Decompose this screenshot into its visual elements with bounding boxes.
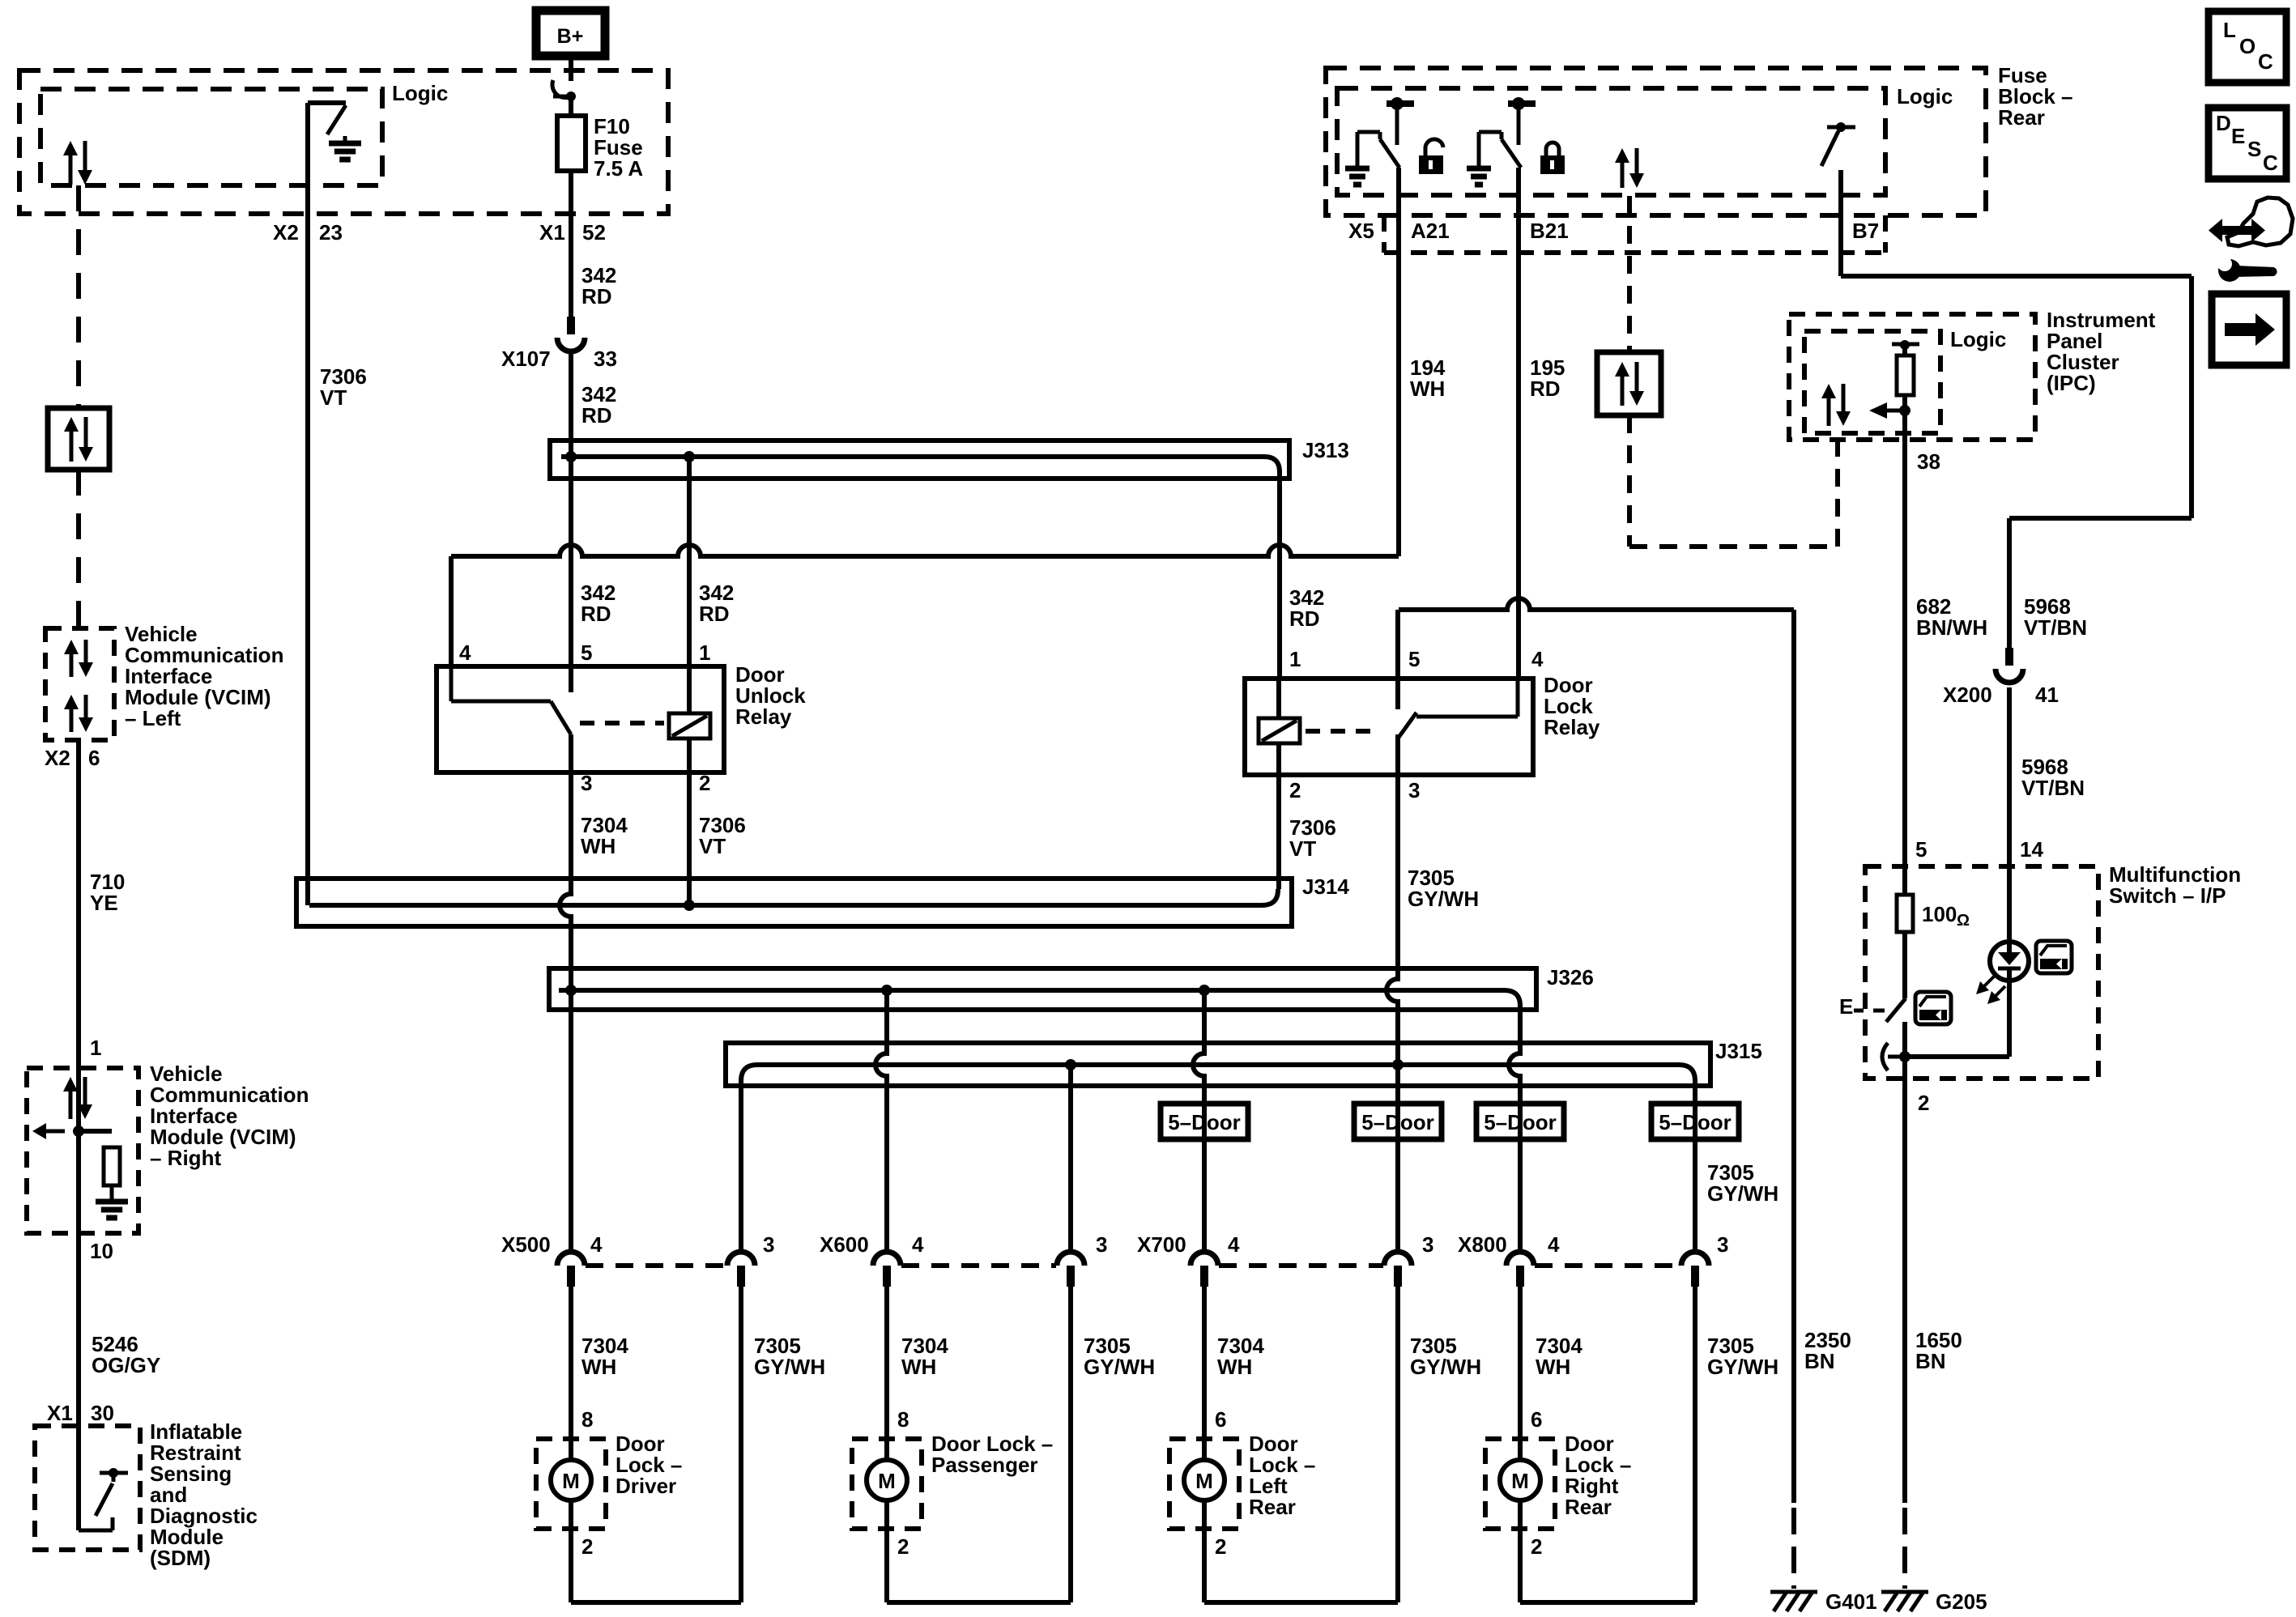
svg-text:VT/BN: VT/BN <box>2021 776 2085 800</box>
svg-text:X1: X1 <box>539 220 565 245</box>
svg-text:5–Door: 5–Door <box>1659 1110 1732 1134</box>
svg-text:Relay: Relay <box>735 704 792 729</box>
svg-text:2: 2 <box>699 771 710 795</box>
svg-text:J313: J313 <box>1302 438 1349 462</box>
svg-text:J314: J314 <box>1302 874 1349 899</box>
svg-text:L: L <box>2223 18 2236 42</box>
svg-text:RD: RD <box>581 403 612 428</box>
svg-text:G205: G205 <box>1936 1589 1987 1614</box>
svg-text:4: 4 <box>1228 1232 1240 1257</box>
svg-text:– Left: – Left <box>125 706 181 730</box>
svg-text:3: 3 <box>763 1232 774 1257</box>
svg-text:OG/GY: OG/GY <box>92 1353 160 1377</box>
svg-text:RD: RD <box>699 602 730 626</box>
svg-text:WH: WH <box>581 834 616 858</box>
svg-text:X2: X2 <box>45 746 70 770</box>
svg-text:X500: X500 <box>501 1232 551 1257</box>
svg-text:BN/WH: BN/WH <box>1916 615 1987 640</box>
svg-text:41: 41 <box>2035 683 2059 707</box>
svg-text:5–Door: 5–Door <box>1484 1110 1557 1134</box>
svg-text:GY/WH: GY/WH <box>754 1355 825 1379</box>
svg-text:RD: RD <box>581 602 611 626</box>
svg-text:GY/WH: GY/WH <box>1707 1355 1778 1379</box>
svg-text:VT/BN: VT/BN <box>2024 615 2087 640</box>
svg-text:30: 30 <box>91 1401 114 1425</box>
svg-text:23: 23 <box>319 220 343 245</box>
svg-text:2: 2 <box>1215 1534 1226 1559</box>
svg-text:5–Door: 5–Door <box>1168 1110 1241 1134</box>
svg-text:2: 2 <box>1531 1534 1542 1559</box>
svg-text:VT: VT <box>699 834 726 858</box>
svg-text:B+: B+ <box>557 25 584 48</box>
svg-text:GY/WH: GY/WH <box>1410 1355 1481 1379</box>
svg-text:3: 3 <box>1408 778 1420 802</box>
svg-text:1: 1 <box>699 640 710 665</box>
svg-text:– Right: – Right <box>150 1146 221 1170</box>
svg-text:X107: X107 <box>501 347 551 371</box>
svg-text:D: D <box>2216 111 2231 135</box>
svg-text:Passenger: Passenger <box>931 1453 1038 1477</box>
svg-text:GY/WH: GY/WH <box>1707 1181 1778 1206</box>
svg-text:5–Door: 5–Door <box>1361 1110 1434 1134</box>
svg-text:S: S <box>2247 137 2261 161</box>
svg-text:6: 6 <box>1531 1407 1542 1432</box>
svg-text:Rear: Rear <box>1249 1495 1296 1519</box>
svg-text:X1: X1 <box>47 1401 73 1425</box>
svg-text:6: 6 <box>1215 1407 1226 1432</box>
svg-text:G401: G401 <box>1825 1589 1877 1614</box>
svg-text:Logic: Logic <box>1897 84 1953 109</box>
svg-text:2: 2 <box>897 1534 909 1559</box>
svg-text:E: E <box>2231 124 2245 148</box>
svg-text:B21: B21 <box>1530 219 1569 243</box>
svg-text:J326: J326 <box>1547 965 1594 989</box>
svg-text:10: 10 <box>90 1239 113 1263</box>
svg-text:BN: BN <box>1804 1349 1835 1373</box>
svg-text:WH: WH <box>581 1355 616 1379</box>
svg-text:WH: WH <box>901 1355 936 1379</box>
svg-text:2: 2 <box>1289 778 1301 802</box>
svg-text:4: 4 <box>1548 1232 1560 1257</box>
svg-text:RD: RD <box>1530 377 1561 401</box>
svg-text:Logic: Logic <box>392 81 448 105</box>
svg-text:WH: WH <box>1410 377 1445 401</box>
svg-text:WH: WH <box>1217 1355 1252 1379</box>
svg-text:M: M <box>1195 1469 1213 1493</box>
svg-text:38: 38 <box>1917 449 1940 474</box>
svg-text:Driver: Driver <box>616 1474 676 1498</box>
svg-text:7.5 A: 7.5 A <box>594 156 643 181</box>
svg-text:52: 52 <box>582 220 606 245</box>
svg-text:2: 2 <box>581 1534 593 1559</box>
svg-text:5: 5 <box>1915 837 1927 862</box>
svg-text:GY/WH: GY/WH <box>1408 887 1479 911</box>
svg-text:Logic: Logic <box>1950 327 2006 351</box>
svg-text:4: 4 <box>590 1232 603 1257</box>
svg-text:3: 3 <box>1096 1232 1107 1257</box>
svg-text:(IPC): (IPC) <box>2047 371 2096 395</box>
svg-text:X200: X200 <box>1943 683 1992 707</box>
svg-text:33: 33 <box>594 347 617 371</box>
svg-text:RD: RD <box>581 284 612 309</box>
svg-text:2: 2 <box>1918 1091 1929 1115</box>
svg-text:Switch – I/P: Switch – I/P <box>2109 883 2226 908</box>
svg-text:RD: RD <box>1289 606 1320 631</box>
svg-text:Rear: Rear <box>1998 105 2045 130</box>
svg-text:C: C <box>2258 49 2273 74</box>
svg-text:A21: A21 <box>1411 219 1450 243</box>
svg-text:5: 5 <box>1408 647 1420 671</box>
svg-text:YE: YE <box>90 891 118 915</box>
svg-text:WH: WH <box>1536 1355 1570 1379</box>
svg-text:Ω: Ω <box>1957 912 1970 930</box>
svg-text:X800: X800 <box>1458 1232 1507 1257</box>
svg-text:4: 4 <box>1531 647 1544 671</box>
svg-text:Relay: Relay <box>1544 715 1600 739</box>
svg-text:M: M <box>1511 1469 1529 1493</box>
svg-text:J315: J315 <box>1715 1039 1762 1063</box>
svg-text:5: 5 <box>581 640 592 665</box>
svg-text:X700: X700 <box>1137 1232 1186 1257</box>
svg-text:GY/WH: GY/WH <box>1084 1355 1155 1379</box>
svg-text:14: 14 <box>2020 837 2043 862</box>
svg-text:4: 4 <box>459 640 471 665</box>
svg-text:1: 1 <box>90 1036 101 1060</box>
svg-text:X2: X2 <box>273 220 299 245</box>
svg-text:(SDM): (SDM) <box>150 1546 211 1570</box>
svg-text:E: E <box>1839 994 1853 1019</box>
svg-text:O: O <box>2239 34 2256 58</box>
svg-text:X5: X5 <box>1348 219 1374 243</box>
svg-text:3: 3 <box>1717 1232 1728 1257</box>
svg-text:M: M <box>878 1469 896 1493</box>
svg-text:3: 3 <box>581 771 592 795</box>
svg-text:VT: VT <box>320 385 347 410</box>
svg-text:8: 8 <box>897 1407 909 1432</box>
svg-text:8: 8 <box>581 1407 593 1432</box>
svg-text:VT: VT <box>1289 836 1316 861</box>
svg-text:X600: X600 <box>820 1232 869 1257</box>
svg-text:BN: BN <box>1915 1349 1946 1373</box>
svg-text:6: 6 <box>88 746 100 770</box>
svg-text:1: 1 <box>1289 647 1301 671</box>
svg-text:4: 4 <box>912 1232 924 1257</box>
svg-text:100: 100 <box>1922 902 1957 926</box>
svg-text:C: C <box>2263 151 2278 175</box>
svg-text:B7: B7 <box>1852 219 1879 243</box>
svg-text:Rear: Rear <box>1565 1495 1612 1519</box>
svg-text:3: 3 <box>1422 1232 1433 1257</box>
svg-text:M: M <box>562 1469 580 1493</box>
